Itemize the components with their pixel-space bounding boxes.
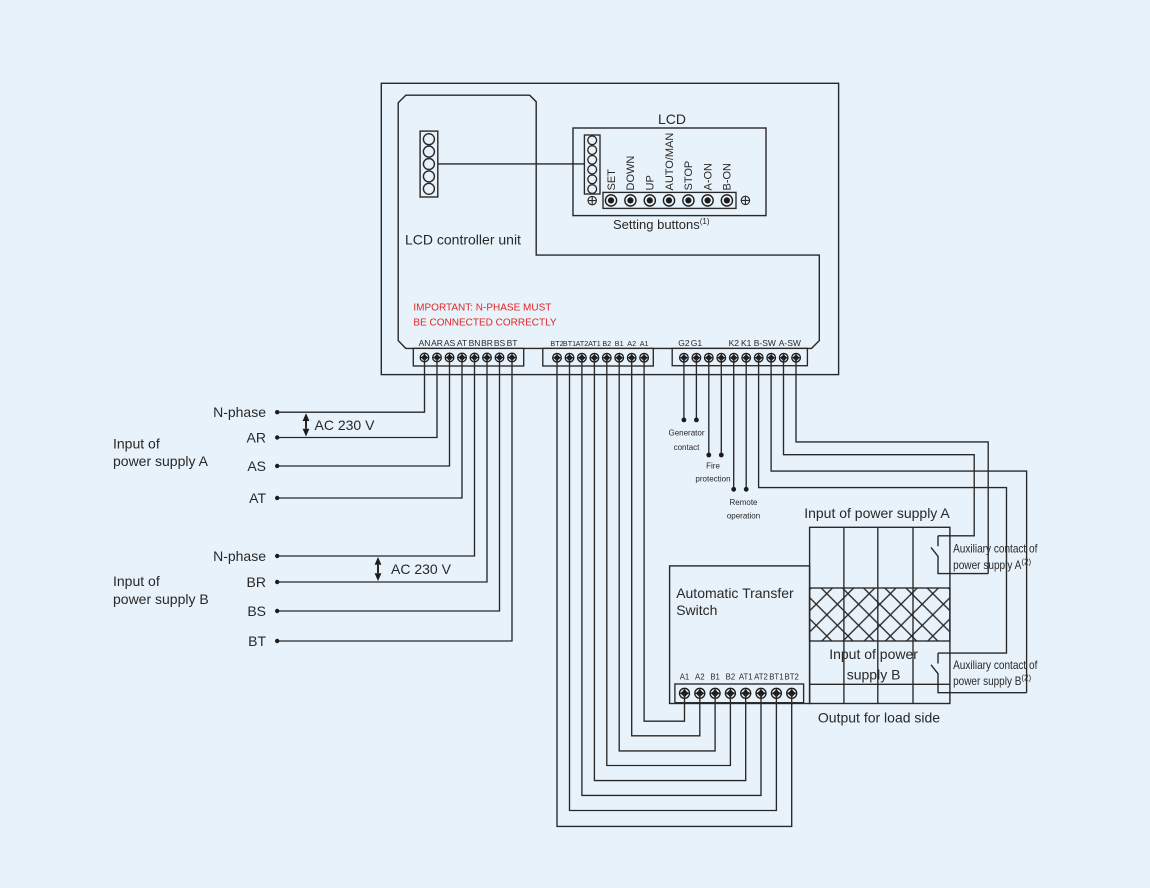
- svg-text:BR: BR: [481, 338, 493, 348]
- wire N-phase to terminal: [277, 358, 424, 413]
- wire A2 controller to ATS: [632, 358, 700, 736]
- node N-phase: [275, 410, 279, 414]
- wire K2 to remote operation: [733, 358, 735, 490]
- wire B2 controller to ATS: [607, 358, 731, 766]
- wire B-SW b to auxiliary contact B bottom: [771, 358, 1027, 693]
- terminal AT2 (controller): [576, 339, 589, 362]
- svg-text:N-phase: N-phase: [213, 404, 266, 420]
- button SET: [605, 169, 617, 206]
- svg-text:BN: BN: [469, 338, 481, 348]
- svg-text:AT1: AT1: [739, 673, 753, 682]
- LCD connector (6-pin): [584, 135, 600, 194]
- svg-text:BT1: BT1: [769, 673, 783, 682]
- svg-text:BT2: BT2: [550, 339, 563, 348]
- svg-text:A1: A1: [680, 673, 690, 682]
- wire G1 to generator contact: [695, 358, 697, 420]
- terminal A1 (controller): [640, 339, 649, 362]
- svg-text:power supply A: power supply A: [113, 453, 209, 469]
- terminal BT2 (ATS): [785, 673, 799, 699]
- node generator contact G2: [682, 418, 687, 423]
- terminal BT: [507, 338, 518, 362]
- button A-ON: [702, 163, 714, 206]
- svg-text:protection: protection: [695, 475, 730, 484]
- svg-text:Fire: Fire: [706, 462, 720, 471]
- terminal G2: [678, 338, 690, 362]
- terminal BS: [494, 338, 506, 362]
- svg-text:K2: K2: [729, 338, 740, 348]
- svg-text:Remote: Remote: [729, 498, 758, 507]
- wire B1 controller to ATS: [619, 358, 715, 751]
- svg-text:Generator: Generator: [668, 429, 704, 438]
- svg-text:Setting buttons(1): Setting buttons(1): [613, 217, 710, 232]
- label auxiliary contact of power supply B: [953, 658, 1038, 688]
- Automatic Transfer Switch body: [670, 566, 810, 704]
- svg-text:B2: B2: [726, 673, 736, 682]
- svg-text:AT: AT: [457, 338, 467, 348]
- svg-text:G2: G2: [678, 338, 690, 348]
- svg-text:BS: BS: [247, 603, 266, 619]
- ATS label: [676, 585, 794, 618]
- button UP: [644, 175, 656, 206]
- terminal BR: [481, 338, 493, 362]
- terminal strip X3 (signals): [672, 348, 807, 365]
- label Input of power supply B (ATS): [829, 646, 918, 683]
- node AT: [275, 496, 279, 500]
- svg-text:BS: BS: [494, 338, 506, 348]
- node fire protection b: [719, 453, 724, 458]
- svg-text:B2: B2: [602, 339, 611, 348]
- terminal G1: [691, 338, 703, 362]
- screw hole right: [741, 196, 750, 205]
- wire A1 controller to ATS: [644, 358, 684, 722]
- label Generator contact: [668, 429, 704, 453]
- terminal AT2 (ATS): [754, 673, 768, 699]
- terminal AT1 (ATS): [739, 673, 753, 699]
- svg-text:K1: K1: [741, 338, 752, 348]
- svg-text:G1: G1: [691, 338, 703, 348]
- svg-text:Input of power: Input of power: [829, 646, 918, 662]
- voltage arrow AC 230 V (supply A): [303, 413, 375, 436]
- svg-text:AT2: AT2: [576, 339, 589, 348]
- terminal X3-10: [792, 353, 801, 362]
- svg-text:Automatic Transfer: Automatic Transfer: [676, 585, 794, 601]
- LCD controller unit outline: [398, 95, 819, 348]
- svg-text:IMPORTANT: N-PHASE MUST: IMPORTANT: N-PHASE MUST: [413, 303, 551, 314]
- svg-text:BT2: BT2: [785, 673, 799, 682]
- wire A-SW a to auxiliary contact A top: [784, 358, 975, 536]
- label auxiliary contact of power supply A: [953, 542, 1038, 572]
- wire AR to terminal: [277, 358, 437, 438]
- svg-text:B1: B1: [710, 673, 720, 682]
- svg-text:UP: UP: [645, 175, 657, 190]
- svg-text:A1: A1: [640, 339, 649, 348]
- svg-text:B-SW: B-SW: [754, 338, 776, 348]
- node fire protection a: [706, 453, 711, 458]
- terminal A1 (ATS): [680, 673, 690, 699]
- terminal A2 (ATS): [695, 673, 705, 699]
- ATS crosshatch band: [810, 588, 950, 641]
- svg-text:AS: AS: [444, 338, 456, 348]
- terminal K2: [729, 338, 740, 362]
- terminal strip X1 (supply inputs): [413, 348, 523, 366]
- svg-text:N-phase: N-phase: [213, 548, 266, 564]
- wire K1 to remote operation: [745, 358, 747, 490]
- wire BS to terminal: [277, 358, 499, 612]
- svg-text:AC 230 V: AC 230 V: [315, 417, 376, 433]
- wire AT to terminal: [277, 358, 462, 499]
- wire BT1 controller to ATS: [570, 358, 777, 811]
- connector J1 (5-pin): [420, 131, 438, 197]
- svg-text:Auxiliary contact of: Auxiliary contact of: [953, 542, 1038, 556]
- ATS terminal strip: [675, 684, 804, 703]
- terminal BT2 (controller): [550, 339, 563, 362]
- svg-text:B-ON: B-ON: [722, 163, 734, 191]
- svg-text:Input of power supply A: Input of power supply A: [804, 505, 950, 521]
- terminal B2 (ATS): [725, 673, 735, 699]
- svg-text:operation: operation: [727, 512, 760, 521]
- svg-text:A-SW: A-SW: [779, 338, 801, 348]
- node BR: [275, 580, 279, 584]
- svg-text:A-ON: A-ON: [702, 163, 714, 191]
- button DOWN: [625, 156, 637, 206]
- svg-text:LCD: LCD: [658, 111, 686, 127]
- svg-text:A2: A2: [695, 673, 705, 682]
- terminal X3-7: [754, 353, 763, 362]
- svg-text:supply B: supply B: [847, 667, 901, 683]
- svg-text:BT: BT: [507, 338, 518, 348]
- wire A-SW b to auxiliary contact A bottom: [796, 358, 988, 574]
- warning note (red): [413, 303, 556, 329]
- svg-text:AC 230 V: AC 230 V: [391, 561, 452, 577]
- node AR: [275, 435, 279, 439]
- svg-text:STOP: STOP: [683, 161, 695, 191]
- wire G2 to generator contact: [683, 358, 685, 420]
- terminal B2 (controller): [602, 339, 611, 362]
- ATS switch matrix: [810, 527, 950, 703]
- node generator contact G1: [694, 418, 699, 423]
- svg-text:AT2: AT2: [754, 673, 768, 682]
- wire N-phase to terminal: [277, 358, 474, 557]
- svg-text:power supply B: power supply B: [113, 591, 209, 607]
- terminal B1 (ATS): [710, 673, 720, 699]
- wire X3-4 to fire protection: [720, 358, 722, 455]
- terminal AN: [419, 338, 431, 362]
- svg-text:BT1: BT1: [563, 339, 576, 348]
- wire AT2 controller to ATS: [582, 358, 761, 796]
- wire X3-3 to fire protection: [708, 358, 710, 455]
- svg-text:AT: AT: [249, 490, 266, 506]
- terminal X3-4: [717, 353, 726, 362]
- svg-text:Auxiliary contact of: Auxiliary contact of: [953, 658, 1038, 672]
- wire BT2 controller to ATS: [557, 358, 792, 827]
- svg-text:power supply B(2): power supply B(2): [953, 673, 1031, 688]
- auxiliary contact switch A: [931, 536, 988, 574]
- terminal K1: [741, 338, 752, 362]
- wire AT1 controller to ATS: [594, 358, 745, 781]
- terminal AT1 (controller): [588, 339, 601, 362]
- svg-text:contact: contact: [674, 443, 701, 452]
- node BT: [275, 639, 279, 643]
- terminal B1 (controller): [615, 339, 624, 362]
- svg-text:LCD controller unit: LCD controller unit: [405, 232, 521, 248]
- label Remote operation: [727, 498, 760, 521]
- button AUTO/MAN: [663, 133, 675, 206]
- LCD module box: [573, 128, 766, 216]
- svg-text:Output for load side: Output for load side: [818, 710, 940, 726]
- svg-text:B1: B1: [615, 339, 624, 348]
- setting buttons row box: [603, 192, 736, 208]
- terminal X3-9: [779, 353, 788, 362]
- wire AS to terminal: [277, 358, 449, 467]
- label Input of power supply A: [113, 436, 209, 470]
- label Input of power supply B: [113, 573, 209, 607]
- wire BR to terminal: [277, 358, 487, 583]
- node remote operation K2: [731, 487, 736, 492]
- terminal A2 (controller): [627, 339, 636, 362]
- svg-text:BR: BR: [247, 574, 266, 590]
- node N-phase: [275, 554, 279, 558]
- node remote operation K1: [744, 487, 749, 492]
- terminal X3-8: [767, 353, 776, 362]
- terminal X3-3: [705, 353, 714, 362]
- svg-text:AR: AR: [247, 429, 266, 445]
- screw hole left: [588, 196, 597, 205]
- wire J1 to LCD connector: [438, 163, 585, 165]
- button STOP: [683, 161, 695, 206]
- auxiliary contact switch B: [931, 653, 1027, 693]
- wire B-SW a to auxiliary contact B top: [759, 358, 1007, 653]
- terminal AR: [431, 338, 443, 362]
- svg-text:Switch: Switch: [676, 602, 717, 618]
- terminal AT: [457, 338, 467, 362]
- svg-text:AT1: AT1: [588, 339, 601, 348]
- node AS: [275, 464, 279, 468]
- terminal BN: [469, 338, 481, 362]
- voltage arrow AC 230 V (supply B): [375, 557, 452, 581]
- svg-text:SET: SET: [606, 169, 618, 191]
- svg-text:Input of: Input of: [113, 573, 160, 589]
- terminal BT1 (ATS): [769, 673, 783, 699]
- terminal AS: [444, 338, 456, 362]
- svg-text:A2: A2: [627, 339, 636, 348]
- terminal strip X2 (control outputs): [543, 348, 654, 366]
- node BS: [275, 609, 279, 613]
- svg-text:AUTO/MAN: AUTO/MAN: [664, 133, 676, 191]
- wire BT to terminal: [277, 358, 512, 642]
- svg-text:AS: AS: [247, 458, 266, 474]
- svg-text:BT: BT: [248, 633, 266, 649]
- svg-text:DOWN: DOWN: [625, 156, 637, 191]
- button B-ON: [721, 163, 733, 206]
- label Fire protection: [695, 462, 730, 484]
- svg-text:power supply A(2): power supply A(2): [953, 558, 1031, 573]
- svg-text:AN: AN: [419, 338, 431, 348]
- outer enclosure box: [381, 83, 838, 374]
- svg-text:Input of: Input of: [113, 436, 160, 452]
- svg-text:BE CONNECTED CORRECTLY: BE CONNECTED CORRECTLY: [413, 318, 556, 329]
- terminal BT1 (controller): [563, 339, 576, 362]
- svg-text:AR: AR: [431, 338, 443, 348]
